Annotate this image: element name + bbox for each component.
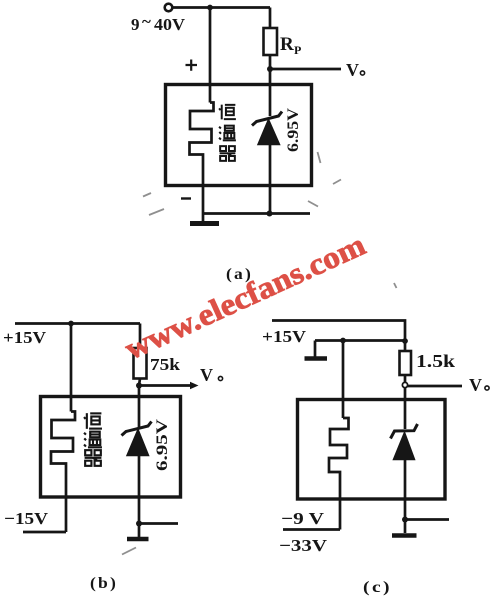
bottom rail a xyxy=(204,212,311,215)
wire Vo line a xyxy=(270,68,341,71)
bottom stub right b xyxy=(139,522,178,525)
box c xyxy=(298,400,446,500)
wire thermostat drop c xyxy=(342,341,345,419)
scan noise marks xyxy=(122,152,397,555)
thermostat heater element a xyxy=(190,103,214,222)
junction dot a top xyxy=(207,5,213,11)
wire resistor to node b xyxy=(139,379,140,428)
ground stub c xyxy=(314,341,317,357)
zener wire lower a xyxy=(269,145,272,214)
bottom stub right c xyxy=(405,518,449,521)
svg-text:+15V: +15V xyxy=(3,328,47,347)
junction dot a bottom xyxy=(267,211,273,217)
wire resistor to node a xyxy=(269,55,272,116)
box b xyxy=(41,397,181,498)
svg-text:6.95V: 6.95V xyxy=(154,418,171,471)
svg-text:40V: 40V xyxy=(154,15,186,34)
junction dot c rail2 xyxy=(340,338,346,344)
wire resistor drop a xyxy=(269,8,272,29)
ground bar top c xyxy=(305,356,328,360)
resistor 1.5k c xyxy=(400,351,412,375)
resistor RP a xyxy=(264,28,278,55)
ground b xyxy=(127,537,149,541)
junction dot c bottom xyxy=(402,517,408,523)
svg-text:−33V: −33V xyxy=(279,536,328,555)
svg-text:V: V xyxy=(469,375,482,395)
wire thermostat drop b xyxy=(70,324,73,412)
svg-text:(c): (c) xyxy=(363,579,392,596)
svg-text:6.95V: 6.95V xyxy=(285,108,302,152)
rail -15V b xyxy=(23,531,66,534)
svg-text:R: R xyxy=(280,34,294,55)
ground drop c xyxy=(404,520,407,534)
wire Vo line b xyxy=(139,384,192,387)
svg-text:V: V xyxy=(346,60,359,80)
junction dot a Vo xyxy=(267,66,273,72)
svg-text:1.5k: 1.5k xyxy=(416,351,455,371)
label heater text a xyxy=(219,105,236,120)
watermark www.elecfans.com xyxy=(119,227,370,367)
rail -9V c xyxy=(283,528,340,531)
wire thermostat drop a xyxy=(209,8,212,103)
terminal node Vo c xyxy=(402,382,407,387)
thermostat heater element c xyxy=(329,418,349,530)
wire resistor to node c xyxy=(404,375,407,383)
resistor 75k b xyxy=(134,348,147,379)
ground bar bottom c xyxy=(392,533,417,537)
zener upper wire c xyxy=(404,388,407,430)
label 6.95V a xyxy=(285,108,302,152)
zener lower wire b xyxy=(138,456,141,524)
zener diode 6.95V b xyxy=(122,422,152,456)
junction dot c rail1 xyxy=(402,338,408,344)
svg-text:www.elecfans.com: www.elecfans.com xyxy=(119,227,370,367)
label 6.95V b xyxy=(154,418,171,471)
svg-text:−9 V: −9 V xyxy=(281,509,325,528)
resistor drop c xyxy=(404,341,407,351)
wire top rail a xyxy=(173,6,271,9)
zener diode 6.95V a xyxy=(252,112,282,145)
svg-text:+15V: +15V xyxy=(262,327,307,346)
svg-text:V: V xyxy=(200,365,213,385)
junction dot b top xyxy=(68,321,74,327)
label plus a xyxy=(186,60,198,71)
label heater text b xyxy=(84,413,102,429)
ground drop b xyxy=(138,524,141,538)
box a xyxy=(166,85,312,186)
svg-text:P: P xyxy=(294,43,301,57)
label minus a xyxy=(181,197,191,199)
zener lower wire c xyxy=(404,460,407,520)
top rail b xyxy=(15,322,140,325)
svg-text:~: ~ xyxy=(142,12,151,31)
junction dot b Vo xyxy=(136,383,142,389)
svg-text:(b): (b) xyxy=(90,575,118,592)
Vo arrowhead b xyxy=(190,382,199,390)
svg-text:75k: 75k xyxy=(150,355,181,374)
zener diode c xyxy=(391,424,418,460)
thermostat heater element b xyxy=(51,412,75,533)
ground a xyxy=(190,221,219,226)
svg-text:−15V: −15V xyxy=(4,509,49,528)
second rail c xyxy=(315,339,405,342)
junction dot b bottom xyxy=(136,521,142,527)
svg-text:9: 9 xyxy=(131,15,140,34)
wire Vo line c xyxy=(408,385,463,388)
top rail c xyxy=(272,321,405,342)
wire resistor drop b xyxy=(139,324,142,349)
terminal input a xyxy=(165,4,173,12)
